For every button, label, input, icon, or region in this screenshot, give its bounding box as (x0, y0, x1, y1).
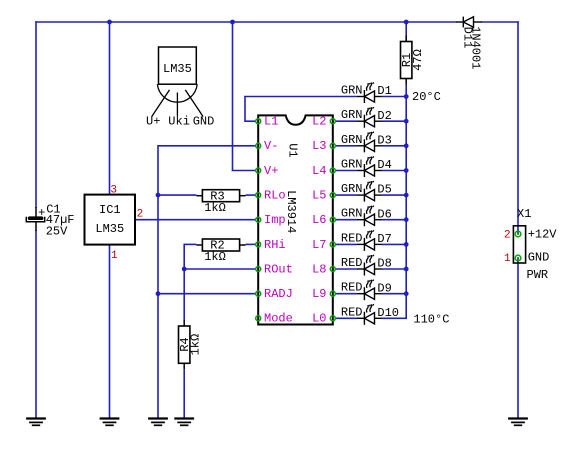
resistor R4 (183, 320, 185, 326)
wire: R1 bottom to bus (405, 85, 407, 97)
svg-text:Uki: Uki (168, 115, 190, 129)
wire: C1 column from rail down to capacitor (35, 21, 37, 208)
svg-text:L3: L3 (312, 139, 326, 153)
svg-text:U1: U1 (285, 143, 299, 157)
svg-text:D9: D9 (377, 281, 391, 295)
wire: R2 right lead to U1 RHi pin (246, 243, 256, 245)
svg-text:GRN: GRN (341, 108, 363, 122)
svg-text:V+: V+ (264, 164, 278, 178)
junction: R4 column / ROut row (182, 267, 187, 272)
connector X1 (PWR) (513, 226, 525, 263)
U1 pin L5 (312, 189, 335, 203)
wire: U1 L8 pin to D8 cathode (335, 268, 357, 270)
wire: bus top to R1 (405, 22, 407, 42)
junction: bus / D5 row (404, 193, 409, 198)
LM35 package outline (TO-92 bottom view) (152, 47, 203, 117)
wire: RADJ row from GND column to U1 RADJ pin (158, 293, 256, 295)
wire: U1 L7 pin to D7 cathode (335, 243, 357, 245)
U1 pin L7 (312, 238, 335, 252)
svg-text:110°C: 110°C (413, 312, 449, 326)
ground (R4) (174, 419, 194, 426)
U1 pin ROut (256, 262, 293, 276)
svg-text:GND: GND (193, 115, 215, 129)
svg-text:D1: D1 (377, 84, 391, 98)
svg-text:D7: D7 (377, 232, 391, 246)
svg-text:D6: D6 (377, 207, 391, 221)
svg-text:GRN: GRN (341, 182, 363, 196)
svg-text:L9: L9 (312, 287, 326, 301)
svg-text:L2: L2 (312, 115, 326, 129)
svg-text:LM3914: LM3914 (284, 190, 298, 233)
junction: bus / D2 row (404, 119, 409, 124)
svg-text:ROut: ROut (264, 262, 293, 276)
wire: R3 right lead to U1 RLo pin (246, 194, 256, 196)
wire: IC1 pin1 column from box to ground (109, 245, 111, 419)
U1 pin Imp (256, 213, 286, 227)
svg-text:IC1: IC1 (99, 203, 121, 217)
svg-text:GRN: GRN (341, 207, 363, 221)
LED D2 (GRN) (357, 107, 382, 127)
wire: +12V top rail right of D11 to X1 column (482, 21, 519, 23)
U1 pin L6 (312, 213, 335, 227)
svg-text:25V: 25V (46, 224, 68, 238)
junction: bus / D4 row (404, 168, 409, 173)
svg-text:V-: V- (264, 139, 278, 153)
svg-text:L1: L1 (264, 115, 278, 129)
wire: D3 anode lead to bus (382, 145, 408, 147)
svg-text:Imp: Imp (264, 213, 286, 227)
svg-text:RLo: RLo (264, 189, 286, 203)
wire: C1 to ground (35, 230, 37, 418)
svg-text:U+: U+ (146, 115, 160, 129)
X1 pin 2 (+12V) (515, 231, 521, 237)
svg-text:Mode: Mode (264, 312, 293, 326)
svg-text:+: + (38, 206, 45, 220)
junction: bus / D6 row (404, 217, 409, 222)
wire: IC1 output pin2 to U1 Imp pin (136, 219, 256, 221)
wire: D6 anode lead to bus (382, 219, 408, 221)
U1 pin L4 (312, 164, 335, 178)
svg-text:47Ω: 47Ω (411, 49, 425, 71)
wire: U1 L0 pin to D10 cathode (335, 317, 357, 319)
wire: R4 column junction to U1 ROut pin (184, 268, 256, 270)
svg-text:GRN: GRN (341, 158, 363, 172)
U1 pin RHi (256, 238, 286, 252)
LED D6 (GRN) (357, 206, 382, 227)
svg-text:3: 3 (110, 184, 117, 196)
svg-text:RHi: RHi (264, 238, 286, 252)
wire: D5 anode lead to bus (382, 194, 408, 196)
LED D10 (RED) (357, 304, 382, 325)
wire: X1 +12V column down to connector (517, 21, 519, 234)
LED D4 (GRN) (357, 157, 382, 178)
wire: U1 L3 pin to D3 cathode (335, 145, 357, 147)
svg-text:GND: GND (528, 250, 550, 264)
wire: R2 left lead to R4 column (184, 243, 196, 245)
svg-text:X1: X1 (517, 207, 531, 221)
svg-text:D5: D5 (377, 183, 391, 197)
wire: V+ column from rail down to U1 V+ pin (232, 21, 234, 170)
svg-text:GRN: GRN (341, 84, 363, 98)
wire: LED anode bus (vertical) (405, 97, 407, 319)
U1 pin L0 (312, 312, 335, 326)
svg-text:+12V: +12V (528, 227, 558, 241)
wire: X1 pin1 column down to ground (517, 258, 519, 418)
junction: top rail / R1-bus column (404, 20, 409, 25)
ground (C1) (26, 419, 46, 426)
junction: GND column / RADJ row (156, 291, 161, 296)
LED D9 (RED) (357, 280, 382, 301)
ground (V-/RADJ net) (148, 419, 168, 426)
U1 pin RADJ (256, 287, 293, 301)
wire: +12V top rail (left part, C1 column to D11 anode lead) (35, 21, 456, 23)
wire: U1 L4 pin to D4 cathode (335, 170, 357, 172)
LED D3 (GRN) (357, 132, 382, 153)
wire: U1 L9 pin to D9 cathode (335, 293, 357, 295)
junction: bus / D8 row (404, 267, 409, 272)
LED D5 (GRN) (357, 181, 382, 202)
wire: D9 anode lead to bus (382, 293, 408, 295)
LED D1 (GRN) (357, 83, 382, 104)
svg-text:1: 1 (111, 250, 118, 262)
svg-text:RED: RED (341, 305, 363, 319)
wire: U1 L2 pin to D2 cathode (335, 120, 357, 122)
resistor R2 (196, 244, 202, 246)
svg-text:D4: D4 (377, 158, 391, 172)
svg-text:PWR: PWR (527, 268, 549, 282)
svg-text:L7: L7 (312, 238, 326, 252)
svg-text:D3: D3 (377, 133, 391, 147)
wire: D8 anode lead to bus (382, 268, 408, 270)
wire: D2 anode lead to bus (382, 120, 408, 122)
svg-text:LM35: LM35 (163, 62, 192, 76)
wire: U1 L1 to D1 loop (up and over) (245, 120, 256, 122)
LED D8 (RED) (357, 255, 382, 276)
resistor R1 (405, 36, 407, 42)
svg-text:RED: RED (341, 231, 363, 245)
U1 pin L3 (312, 139, 335, 153)
U1 pin Mode (256, 312, 293, 326)
U1 pin L2 (312, 115, 335, 129)
svg-text:D10: D10 (377, 306, 399, 320)
svg-text:1kΩ: 1kΩ (204, 201, 226, 215)
diode D11 (1N4001) (456, 17, 482, 28)
svg-text:L5: L5 (312, 189, 326, 203)
junction: top rail / IC1 column (107, 20, 112, 25)
U1 pin L1 (256, 115, 279, 129)
LM35 lead labels U+ Uki GND (146, 115, 214, 129)
svg-text:1: 1 (504, 253, 511, 265)
junction: bus / D7 row (404, 242, 409, 247)
wire: IC1 pin3 column from rail to IC1 box (109, 21, 111, 195)
ground (IC1 pin1) (100, 419, 120, 426)
wire: R4 bottom to ground (183, 369, 185, 418)
ground (X1 pin1) (508, 419, 528, 426)
wire: U1 V- to GND column (158, 145, 256, 147)
svg-text:RED: RED (341, 256, 363, 270)
svg-text:L8: L8 (312, 262, 326, 276)
svg-text:1kΩ: 1kΩ (189, 334, 203, 356)
junction: GND column / R3 (RLo row) (156, 193, 161, 198)
junction: top rail / V+ column (230, 20, 235, 25)
svg-text:LM35: LM35 (95, 222, 124, 236)
IC IC1 (LM35 temperature sensor) (85, 195, 136, 245)
svg-text:1N4001: 1N4001 (469, 26, 483, 69)
wire: D4 anode lead to bus (382, 170, 408, 172)
U1 pin L9 (312, 287, 335, 301)
svg-text:GRN: GRN (341, 133, 363, 147)
junction: bus / D9 row (404, 291, 409, 296)
wire: U1 L5 pin to D5 cathode (335, 194, 357, 196)
svg-text:D2: D2 (377, 109, 391, 123)
U1 pin L8 (312, 262, 335, 276)
wire: D7 anode lead to bus (382, 243, 408, 245)
svg-text:L4: L4 (312, 164, 326, 178)
resistor R3 (196, 195, 202, 197)
U1 pin RLo (256, 189, 286, 203)
svg-text:RED: RED (341, 281, 363, 295)
IC U1 (LM3914 dot/bar display driver) (258, 115, 333, 324)
C1 value label 47µF 25V (46, 213, 75, 238)
U1 pin V- (256, 139, 279, 153)
svg-text:RADJ: RADJ (264, 287, 293, 301)
junction: bus / D3 row (404, 143, 409, 148)
svg-text:20°C: 20°C (412, 90, 441, 104)
wire: D10 anode lead to bus (382, 317, 408, 319)
svg-text:2: 2 (137, 209, 144, 221)
X1 pin 1 (GND) (515, 255, 521, 261)
svg-text:L0: L0 (312, 312, 326, 326)
svg-text:2: 2 (504, 229, 511, 241)
U1 pin V+ (256, 164, 279, 178)
capacitor C1 (electrolytic) (26, 206, 45, 231)
wire: D1 anode lead to bus (382, 96, 408, 98)
wire: U1 L6 pin to D6 cathode (335, 219, 357, 221)
svg-text:L6: L6 (312, 213, 326, 227)
LED D7 (RED) (357, 230, 382, 251)
svg-text:1kΩ: 1kΩ (204, 250, 226, 264)
wire: R3 left lead to GND column (junction) (158, 194, 196, 196)
junction: bus / D1 row (404, 94, 409, 99)
svg-text:D8: D8 (377, 257, 391, 271)
